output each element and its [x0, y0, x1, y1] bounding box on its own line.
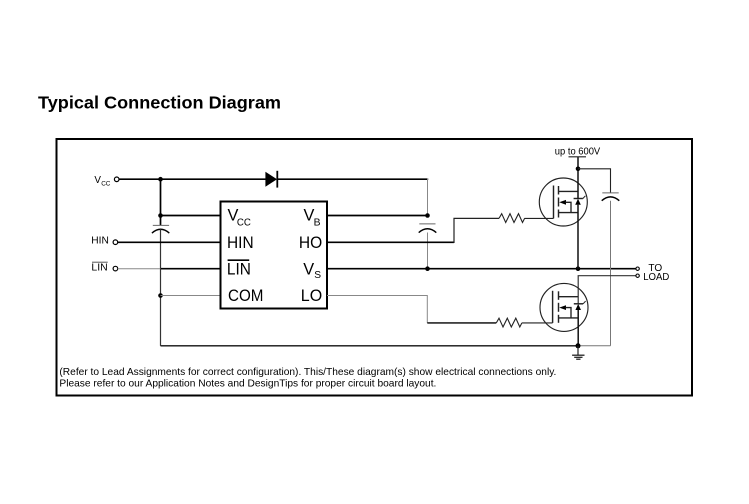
wire LIN left gray segment — [118, 268, 161, 270]
svg-text:(Refer to Lead Assignments for: (Refer to Lead Assignments for correct c… — [59, 366, 556, 378]
wire C2 bottom lead to VS — [427, 233, 429, 269]
svg-text:B: B — [314, 217, 321, 228]
ground — [572, 346, 584, 359]
wire LO corner to R2 — [427, 322, 496, 324]
wire Q2 source to ground — [577, 310, 579, 346]
node VS bootstrap dot — [425, 266, 430, 271]
wire VCC pin — [161, 215, 221, 217]
node COM junction dot — [158, 293, 163, 298]
wire left vertical VCC to C1 — [160, 179, 162, 225]
wire LO pin run — [327, 296, 427, 323]
wire R2 to Q2 gate — [522, 322, 553, 324]
wire lower load stub — [578, 276, 636, 304]
wire diode cathode to corner — [277, 178, 428, 180]
wire left vertical C1 to COM to bottom rail — [160, 229, 162, 345]
terminal VCC — [94, 175, 119, 187]
pin VS label — [303, 261, 321, 281]
capacitor C1 VCC decoupling — [152, 225, 169, 233]
resistor R1 high side gate — [499, 214, 525, 223]
capacitor C2 bootstrap — [419, 224, 437, 233]
svg-text:CC: CC — [237, 217, 251, 228]
wire ground rail to C3 return — [578, 345, 611, 347]
wire HV rail vertical to Q1 drain — [577, 157, 579, 199]
pin LIN label — [227, 260, 251, 278]
node VCC pin junction dot — [158, 213, 163, 218]
wire HV to bus cap C3 — [578, 169, 611, 193]
wire HIN — [118, 241, 221, 243]
capacitor C3 bus — [602, 193, 620, 201]
terminal HIN — [91, 236, 117, 247]
resistor R2 low side gate — [496, 318, 522, 327]
wire VB pin to bootstrap node — [327, 215, 428, 217]
pin VB label — [304, 207, 321, 229]
wire bottom ground rail — [161, 345, 579, 347]
IC U1 gate driver — [221, 202, 328, 309]
svg-text:HIN: HIN — [91, 236, 109, 247]
label TO LOAD — [643, 263, 669, 283]
svg-text:HO: HO — [299, 234, 322, 252]
node VCC junction dot — [158, 177, 163, 182]
node VS midpoint dot — [576, 266, 581, 271]
wire C3 return to ground rail — [610, 201, 612, 346]
svg-text:HIN: HIN — [227, 234, 254, 252]
wire COM pin — [161, 295, 221, 297]
svg-text:Typical Connection Diagram: Typical Connection Diagram — [38, 93, 281, 113]
svg-text:Please refer to our Applicatio: Please refer to our Application Notes an… — [59, 378, 436, 390]
pin VCC label — [228, 207, 251, 229]
svg-text:LO: LO — [301, 287, 322, 305]
wire Q1 source to VS — [577, 205, 579, 269]
wire R1 to Q1 gate — [524, 217, 553, 219]
svg-text:S: S — [314, 270, 321, 281]
terminal TO LOAD lower — [636, 274, 639, 277]
transistor Q1 high-side MOSFET — [539, 178, 587, 226]
power rail up to 600V — [555, 146, 601, 157]
svg-text:COM: COM — [228, 287, 263, 305]
diode D1 bootstrap — [265, 171, 277, 188]
wire VCC terminal to diode anode — [119, 178, 265, 180]
wire HO pin run — [327, 241, 454, 243]
transistor Q2 low-side MOSFET — [540, 283, 588, 331]
svg-text:LIN: LIN — [227, 261, 251, 279]
node bootstrap junction dot — [425, 213, 430, 218]
svg-text:V: V — [303, 261, 314, 279]
node ground junction dot — [576, 343, 581, 348]
svg-text:LIN: LIN — [91, 263, 107, 274]
svg-text:CC: CC — [101, 181, 111, 188]
terminal LIN — [91, 262, 117, 274]
terminal TO LOAD upper — [636, 267, 639, 270]
wire LIN right segment — [161, 268, 221, 270]
node HV junction dot — [576, 167, 581, 172]
svg-text:up to 600V: up to 600V — [555, 146, 601, 157]
wire VS rail — [327, 268, 636, 270]
svg-text:LOAD: LOAD — [643, 272, 669, 283]
